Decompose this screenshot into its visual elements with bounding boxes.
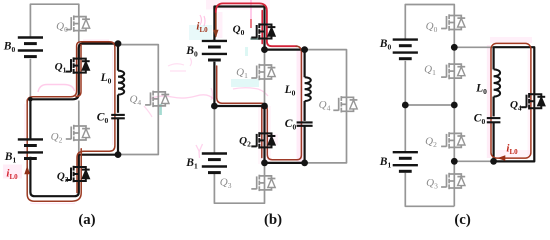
svg-text:(a): (a) (78, 212, 95, 228)
svg-text:(c): (c) (454, 212, 470, 228)
svg-text:(b): (b) (264, 212, 282, 228)
